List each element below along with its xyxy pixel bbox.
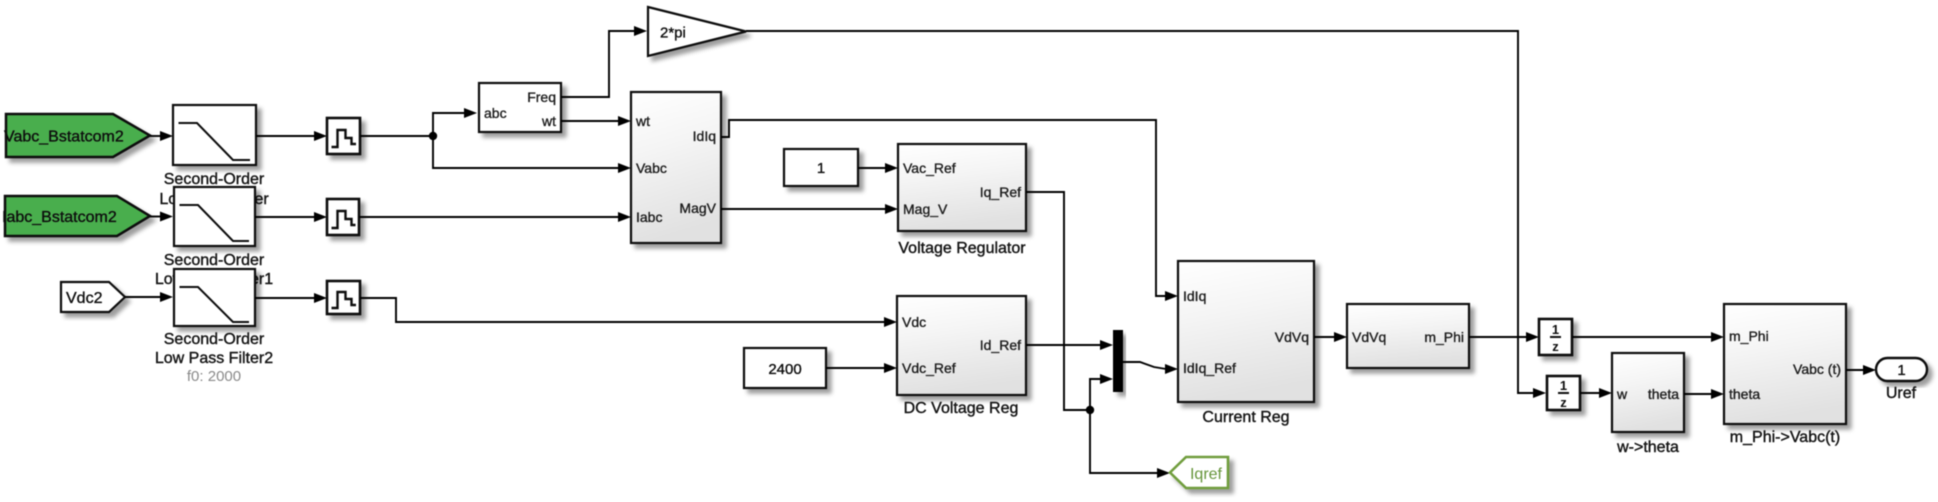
wire 2400 to Vdc_Ref <box>826 363 897 373</box>
svg-text:Vabc: Vabc <box>636 160 667 176</box>
svg-text:Vabc (t): Vabc (t) <box>1793 361 1841 377</box>
svg-text:IdIq: IdIq <box>1183 288 1206 304</box>
wire 1 to Vac_Ref <box>858 163 898 173</box>
wire pulse2 to Iabc input <box>359 212 631 222</box>
wire tag1 to filter1 <box>150 131 173 141</box>
wire VdVq to VdVq->m_Phi block <box>1314 332 1347 342</box>
wire mux to IdIq_Ref <box>1123 362 1178 374</box>
svg-text:Vdc_Ref: Vdc_Ref <box>902 360 956 376</box>
subsystem m_Phi->Vabc(t) <box>1724 304 1846 424</box>
svg-text:Id_Ref: Id_Ref <box>980 337 1021 353</box>
wire Iq_Ref down to junction <box>1026 192 1090 410</box>
junction node Iqref <box>1086 406 1094 414</box>
gain block 2*pi <box>648 7 746 56</box>
wire junction to Iqref tag <box>1090 410 1170 478</box>
svg-text:VdVq: VdVq <box>1275 329 1309 345</box>
wire Id_Ref to mux input 1 <box>1026 340 1113 350</box>
subsystem Current Reg <box>1178 261 1314 402</box>
inport tag Vdc2 <box>61 282 125 312</box>
svg-text:f0: 2000: f0: 2000 <box>187 368 241 385</box>
wire junction to Vabc input <box>433 136 631 173</box>
svg-text:Uref: Uref <box>1886 385 1917 402</box>
goto tag Vabc_Bstatcom2 <box>4 114 150 157</box>
wire pulse3 to Vdc input <box>360 298 897 327</box>
rate transition block pulse2 <box>327 199 359 235</box>
wire Vdc2 to filter3 <box>125 292 173 302</box>
svg-text:Second-Order: Second-Order <box>164 331 265 348</box>
svg-text:2*pi: 2*pi <box>660 25 686 42</box>
mux block <box>1113 330 1123 392</box>
svg-text:Second-Order: Second-Order <box>164 252 265 269</box>
svg-text:1: 1 <box>1552 322 1559 337</box>
wire unit delay 2 to w input <box>1580 388 1612 398</box>
svg-text:wt: wt <box>635 113 650 129</box>
svg-text:Iqref: Iqref <box>1190 466 1223 483</box>
svg-text:theta: theta <box>1729 386 1760 402</box>
svg-text:Vabc_Bstatcom2: Vabc_Bstatcom2 <box>4 129 124 146</box>
svg-text:IdIq_Ref: IdIq_Ref <box>1183 360 1236 376</box>
svg-text:Freq: Freq <box>527 89 556 105</box>
filter block Second-Order Low Pass Filter <box>173 105 256 165</box>
subsystem w->theta <box>1612 353 1684 432</box>
wire filter2 to pulse2 <box>255 212 327 222</box>
svg-text:VdVq: VdVq <box>1352 329 1386 345</box>
outport 1 (Uref) <box>1876 358 1927 381</box>
wire tag2 to filter2 <box>150 212 173 222</box>
wire pulse1 to junction <box>360 135 433 137</box>
wire Vabc(t) to outport <box>1846 365 1876 375</box>
wire theta to m_Phi->Vabc(t) theta input <box>1684 389 1724 399</box>
svg-text:Iabc_Bstatcom2: Iabc_Bstatcom2 <box>2 209 117 226</box>
wire Freq to 2*pi gain <box>561 26 647 97</box>
dq transform block (wt,Vabc,Iabc -> IdIq,MagV) <box>631 92 721 243</box>
wire junction to mux input 2 <box>1090 374 1113 410</box>
svg-text:DC Voltage Reg: DC Voltage Reg <box>904 400 1019 417</box>
svg-text:IdIq: IdIq <box>693 128 716 144</box>
svg-text:w: w <box>1616 386 1628 402</box>
wire filter3 to pulse3 <box>255 293 327 303</box>
svg-text:m_Phi: m_Phi <box>1729 328 1769 344</box>
subsystem Voltage Regulator <box>898 144 1026 231</box>
svg-text:Iq_Ref: Iq_Ref <box>980 184 1021 200</box>
goto tag Iabc_Bstatcom2 <box>2 196 150 236</box>
rate transition block pulse3 <box>327 281 360 314</box>
svg-text:1: 1 <box>1897 362 1905 379</box>
svg-text:Mag_V: Mag_V <box>903 201 948 217</box>
wire IdIq to Current Reg IdIq <box>721 120 1178 301</box>
wire unit delay 1 to m_Phi input <box>1572 332 1724 342</box>
svg-text:z: z <box>1560 395 1567 410</box>
svg-text:theta: theta <box>1648 386 1679 402</box>
unit delay block 1/z (1) <box>1539 319 1572 355</box>
svg-text:2400: 2400 <box>768 361 801 378</box>
wire wt to dq block <box>561 116 631 126</box>
from tag Iqref <box>1170 457 1228 488</box>
svg-text:m_Phi->Vabc(t): m_Phi->Vabc(t) <box>1730 429 1840 446</box>
junction node <box>429 132 437 140</box>
constant block 1 <box>784 149 858 186</box>
filter block Second-Order Low Pass Filter2 <box>174 269 255 326</box>
constant block 2400 <box>744 348 826 388</box>
wire junction to abc block <box>433 108 477 136</box>
svg-text:Low Pass Filter2: Low Pass Filter2 <box>155 350 273 367</box>
svg-text:Second-Order: Second-Order <box>164 171 265 188</box>
svg-text:Vac_Ref: Vac_Ref <box>903 160 956 176</box>
wire m_Phi to unit delay 1 <box>1469 332 1539 342</box>
abc to Freq/wt block <box>479 83 561 132</box>
wire 2*pi to unit delay 2 (long top wire) <box>746 31 1546 398</box>
subsystem DC Voltage Reg <box>897 296 1026 395</box>
svg-text:m_Phi: m_Phi <box>1424 329 1464 345</box>
svg-text:1: 1 <box>817 160 825 177</box>
svg-text:wt: wt <box>541 113 556 129</box>
svg-text:z: z <box>1552 339 1559 354</box>
svg-text:w->theta: w->theta <box>1616 439 1679 456</box>
svg-text:MagV: MagV <box>679 200 716 216</box>
subsystem VdVq to m_Phi <box>1347 304 1469 368</box>
svg-text:Iabc: Iabc <box>636 209 662 225</box>
svg-text:Vdc2: Vdc2 <box>66 290 103 307</box>
wire MagV to Mag_V <box>721 204 898 214</box>
svg-text:Vdc: Vdc <box>902 314 926 330</box>
svg-text:Current Reg: Current Reg <box>1202 409 1289 426</box>
filter block Second-Order Low Pass Filter1 <box>174 187 255 246</box>
rate transition block pulse1 <box>327 118 360 154</box>
wire filter1 to pulse1 <box>256 131 327 141</box>
unit delay block 1/z (2) <box>1547 376 1580 410</box>
svg-text:Voltage Regulator: Voltage Regulator <box>898 240 1026 257</box>
svg-text:1: 1 <box>1560 378 1567 393</box>
svg-text:abc: abc <box>484 105 507 121</box>
